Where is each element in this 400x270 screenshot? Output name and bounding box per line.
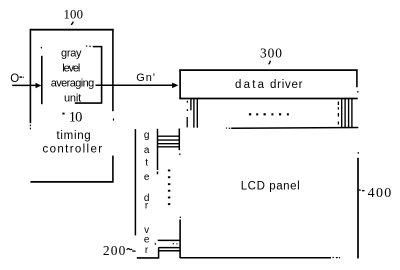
input arrowhead: [36, 83, 42, 89]
leader tick under 100: [71, 22, 73, 25]
LCD panel bottom edge: [180, 257, 331, 259]
label 200 tilde: [127, 249, 133, 250]
svg-text:timing: timing: [57, 130, 91, 142]
gate driver right edge dash: [155, 243, 156, 245]
bottom gate bus wire 1: [158, 239, 181, 241]
label 200 connector: [132, 250, 135, 252]
svg-text:data: data: [235, 79, 265, 91]
leader tick under 300: [269, 61, 271, 64]
gate driver box left edge: [134, 129, 136, 235]
svg-text:r: r: [145, 245, 149, 256]
svg-text:400: 400: [368, 186, 392, 201]
label 110: [62, 113, 64, 115]
bottom gate bus dots: [173, 243, 174, 244]
top gate bus wires: [158, 135, 180, 137]
LCD panel left edge lower dot: [180, 217, 181, 219]
gate driver bottom edge: [137, 257, 159, 259]
box 100 timing controller top edge: [30, 29, 114, 31]
left data bus wires: [190, 99, 192, 111]
box 100 bottom edge: [30, 181, 113, 183]
inner box 110 top-right segment: [93, 46, 102, 48]
right data bus wires: [341, 99, 343, 128]
gate driver right edge bottom segment: [158, 247, 160, 258]
output wire Gn': [96, 84, 173, 86]
data bus ellipsis dots: [249, 113, 251, 115]
svg-text:e: e: [144, 172, 150, 183]
box 300 data driver right edge: [356, 69, 358, 87]
box 100 right edge upper: [112, 29, 114, 111]
svg-text:t: t: [145, 158, 148, 169]
LCD panel bottom edge dots: [333, 257, 334, 258]
svg-text:LCD panel: LCD panel: [241, 180, 300, 192]
left data bus dashed line: [186, 101, 188, 103]
gate bus ellipsis dots: [168, 170, 170, 172]
LCD panel left edge bottom segment: [179, 220, 181, 259]
inner box 110 bottom edge: [75, 102, 102, 104]
svg-text:g: g: [144, 130, 150, 141]
box 100 left edge: [29, 29, 31, 123]
label 400 tick: [359, 189, 361, 190]
box 100 right edge lower: [112, 156, 114, 183]
svg-text:a: a: [144, 145, 150, 156]
svg-text:300: 300: [260, 46, 282, 61]
output arrowhead: [172, 83, 178, 89]
right data bus dashed line: [337, 102, 339, 106]
box 300 data driver bottom edge: [179, 98, 357, 100]
LCD panel left edge top segment: [178, 129, 180, 151]
svg-text:100: 100: [64, 7, 84, 21]
box 300 data driver top edge: [179, 69, 357, 71]
data driver corner dot: [357, 91, 358, 93]
box 100 left edge dots: [30, 125, 31, 127]
box 100 right edge dot: [113, 118, 114, 120]
inner box 110 right edge: [101, 46, 103, 104]
input wire: [12, 84, 36, 86]
svg-text:10: 10: [69, 109, 83, 125]
LCD panel top edge: [231, 127, 358, 130]
svg-text:Gn': Gn': [136, 72, 155, 84]
bottom gate bus wire 2: [159, 247, 181, 249]
label 400 dash: [362, 190, 365, 191]
inner box 110 left edge: [41, 56, 43, 104]
svg-text:200: 200: [103, 243, 126, 258]
inner box 110 top-left dot: [41, 47, 42, 49]
svg-text:gray: gray: [61, 47, 82, 59]
gate driver box right edge: [157, 129, 159, 170]
LCD panel right edge: [357, 158, 359, 259]
LCD panel top edge dots: [226, 128, 227, 129]
bottom gate bus wire 3: [159, 250, 181, 252]
svg-text:controller: controller: [43, 144, 103, 156]
svg-text:level: level: [62, 63, 80, 75]
svg-text:O: O: [10, 73, 19, 85]
svg-text:driver: driver: [270, 79, 303, 91]
box 300 data driver left edge: [179, 69, 181, 99]
inner box 110 top dots: [86, 46, 88, 47]
svg-text:averaging: averaging: [51, 77, 95, 89]
LCD panel left edge dot: [179, 153, 180, 155]
LCD panel right edge dot: [358, 152, 359, 154]
svg-text:unit: unit: [64, 92, 81, 104]
